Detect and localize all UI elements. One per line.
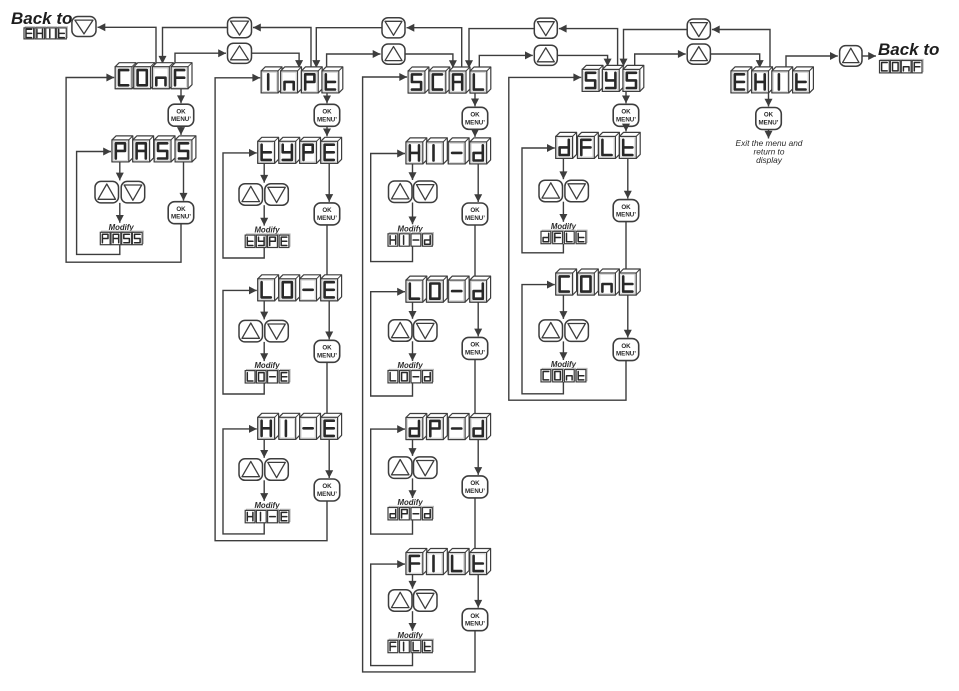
wire SYS to pair4 up-button	[635, 50, 686, 69]
wire loop modify tYPE back	[223, 149, 264, 258]
button OK/MENU SCAL-2	[462, 203, 488, 225]
svg-text:Modify: Modify	[254, 226, 280, 235]
button pair2 down	[382, 18, 405, 38]
wire tYPE to up/down pair	[260, 163, 268, 182]
svg-text:MENU’: MENU’	[317, 352, 337, 359]
small display modify FILt	[388, 639, 434, 653]
wire loop modify FILt back	[371, 560, 413, 666]
svg-text:OK: OK	[764, 112, 774, 119]
button COnt pair down	[565, 320, 589, 342]
button OK/MENU InPt-4	[314, 479, 340, 501]
svg-text:Back to: Back to	[11, 9, 72, 28]
svg-text:OK: OK	[470, 112, 480, 119]
wire LO-d to up/down pair	[409, 302, 417, 319]
wire pair3 down-button to SCAL	[465, 29, 534, 68]
svg-text:OK: OK	[322, 345, 332, 352]
svg-text:Modify: Modify	[398, 224, 424, 233]
small display EHIt (top left)	[24, 27, 68, 39]
wire pair1 up-button to InPt	[252, 53, 304, 68]
small display modify HI-E	[245, 509, 290, 523]
wire FILt to OK5	[474, 575, 482, 608]
wire COnF to pair1 up-button	[175, 49, 226, 66]
wire InPt to pair2 up-button	[327, 50, 381, 71]
svg-text:MENU’: MENU’	[465, 349, 485, 356]
wire SYS to OK1	[622, 91, 630, 103]
button OK/MENU SCAL-4	[462, 476, 488, 498]
wire loop modify dFLt back	[522, 144, 563, 253]
display SYS	[582, 65, 644, 91]
svg-text:MENU’: MENU’	[317, 215, 337, 222]
svg-text:OK: OK	[322, 109, 332, 116]
button FILt pair down	[414, 590, 438, 612]
button back down-button	[72, 17, 96, 37]
wire SCAL to OK1	[471, 93, 479, 106]
wire LO-d to OK3	[474, 302, 482, 336]
button PASS pair up	[95, 181, 119, 203]
wire OK1 to PASS	[177, 126, 185, 135]
button pair3 down	[534, 18, 557, 38]
button exit up-button	[840, 46, 862, 67]
svg-text:Modify: Modify	[398, 631, 424, 640]
button pair3 up	[534, 45, 557, 65]
button LO-E pair up	[239, 320, 263, 342]
wire HI-E to OK4	[325, 439, 333, 478]
wire CONF to back down-button	[98, 23, 157, 66]
display LO-d	[406, 276, 491, 302]
wire EXIT to pair4 down-button	[712, 26, 770, 71]
wire OK2 to LO-E	[326, 225, 328, 275]
display PASS	[112, 136, 196, 162]
button tYPE pair up	[239, 184, 263, 206]
display HI-E	[258, 413, 342, 439]
wire pair1 down-button to COnF	[159, 28, 228, 64]
svg-text:MENU’: MENU’	[616, 351, 636, 358]
wire up/down pair to Modify HI-d	[409, 203, 417, 225]
wire OK3 to dP-d	[474, 359, 476, 413]
display HI-d	[406, 138, 491, 164]
wire COnF to OK1	[177, 89, 185, 104]
display InPt	[261, 67, 343, 93]
wire InPt to OK1	[323, 93, 331, 103]
button pair4 up	[687, 44, 710, 64]
button OK/MENU COnF-2	[168, 202, 194, 224]
display EHIt	[731, 67, 813, 93]
wire COnt to up/down pair	[559, 295, 567, 319]
small display modify dP-d	[388, 506, 434, 520]
display LO-E	[258, 275, 342, 301]
display SCAL	[408, 67, 491, 93]
svg-text:OK: OK	[470, 207, 480, 214]
button OK/MENU InPt-2	[314, 203, 340, 225]
svg-text:MENU’: MENU’	[465, 119, 485, 126]
button OK/MENU SCAL-5	[462, 609, 488, 631]
wire pair4 down-button to SYS	[620, 30, 688, 67]
button HI-E pair up	[239, 459, 263, 481]
wire loop modify dP-d back	[371, 425, 413, 534]
wire OK2 to LO-d	[474, 225, 476, 276]
button OK/MENU COnF-1	[168, 104, 194, 126]
button OK/MENU SCAL-3	[462, 337, 488, 359]
button PASS pair down	[121, 181, 145, 203]
svg-text:MENU’: MENU’	[465, 215, 485, 222]
wire OK EXIT to caption	[765, 130, 773, 139]
button LO-d pair down	[414, 320, 438, 342]
button HI-E pair down	[265, 459, 289, 481]
wire EXIT to OK	[765, 93, 773, 107]
button LO-E pair down	[265, 320, 289, 342]
small display modify PASS	[100, 231, 143, 245]
wire loop InPt back	[215, 74, 327, 541]
display COnF	[115, 63, 192, 89]
button pair1 down	[228, 18, 252, 38]
wire exit up-button to Back to CONF	[862, 52, 876, 60]
wire loop modify PASS back	[77, 148, 120, 255]
svg-text:Modify: Modify	[254, 361, 280, 370]
wire up/down pair to Modify dFLt	[559, 202, 567, 222]
wire up/down pair to Modify tYPE	[260, 205, 268, 225]
button OK/MENU SYS-2	[613, 200, 639, 222]
svg-text:OK: OK	[176, 108, 186, 115]
svg-text:OK: OK	[176, 206, 186, 213]
button HI-d pair down	[414, 181, 438, 203]
wire dP-d to up/down pair	[409, 440, 417, 456]
wire up/down pair to Modify LO-d	[409, 341, 417, 361]
wire OK1 to tYPE	[323, 126, 331, 136]
button OK/MENU SYS-1	[613, 104, 639, 126]
wire SCAL to pair3 up-button	[479, 51, 533, 71]
button HI-d pair up	[389, 181, 413, 203]
svg-text:MENU’: MENU’	[317, 491, 337, 498]
wire PASS to OK2	[180, 162, 188, 201]
svg-text:Modify: Modify	[109, 223, 135, 232]
wire COnt to OK3	[624, 295, 632, 338]
svg-text:MENU’: MENU’	[465, 621, 485, 628]
button pair2 up	[382, 44, 405, 64]
svg-text:Modify: Modify	[551, 222, 577, 231]
wire up/down pair to Modify COnt	[559, 341, 567, 360]
button dFLt pair up	[539, 180, 563, 202]
svg-text:OK: OK	[322, 483, 332, 490]
button pair1 up	[228, 43, 252, 63]
wire LO-E to OK3	[325, 301, 333, 340]
button FILt pair up	[389, 590, 413, 612]
svg-text:MENU’: MENU’	[759, 120, 779, 127]
wire loop SCAL back	[363, 73, 475, 672]
svg-text:MENU’: MENU’	[616, 116, 636, 123]
small display modify HI-d	[388, 233, 434, 247]
svg-text:MENU’: MENU’	[465, 488, 485, 495]
button dFLt pair down	[565, 180, 589, 202]
button dP-d pair up	[389, 457, 413, 479]
display dFLt	[556, 132, 640, 158]
wire loop modify LO-d back	[371, 288, 413, 396]
small display modify COnt	[541, 368, 587, 382]
wire up/down pair to Modify dP-d	[409, 478, 417, 498]
svg-text:Modify: Modify	[398, 498, 424, 507]
button tYPE pair down	[265, 184, 289, 206]
svg-text:OK: OK	[470, 613, 480, 620]
wire pair2 up-button to SCAL	[405, 54, 457, 68]
button COnt pair up	[539, 320, 563, 342]
wire loop SYS back	[509, 73, 626, 400]
svg-text:Back to: Back to	[878, 40, 939, 59]
wire EXIT to exit up-button	[786, 52, 838, 71]
wire OK1 to HI-d	[471, 129, 479, 137]
svg-text:MENU’: MENU’	[171, 214, 191, 221]
wire OK3 to HI-E	[326, 362, 328, 413]
button pair4 down	[687, 19, 710, 39]
wire HI-d to up/down pair	[409, 164, 417, 180]
wire dFLt to OK2	[624, 158, 632, 198]
wire HI-d to OK2	[474, 164, 482, 202]
wire loop modify HI-E back	[223, 425, 264, 534]
display tYPE	[258, 137, 342, 163]
svg-text:OK: OK	[621, 109, 631, 116]
wire pair2 down-button to InPt	[312, 28, 382, 68]
wire SYS to pair3 down-button	[559, 25, 618, 70]
wire loop modify HI-d back	[371, 150, 413, 262]
wire pair3 up-button to SYS	[557, 55, 611, 66]
button OK/MENU EXIT	[756, 108, 782, 130]
small display modify dFLt	[541, 230, 587, 244]
svg-text:MENU’: MENU’	[317, 116, 337, 123]
wire up/down pair to Modify HI-E	[260, 480, 268, 501]
display dP-d	[406, 414, 491, 440]
button OK/MENU SYS-3	[613, 339, 639, 361]
small display COnF (top right)	[880, 59, 924, 73]
wire pair4 up-button to EXIT	[710, 54, 763, 68]
wire HI-E to up/down pair	[260, 439, 268, 458]
wire tYPE to OK2	[325, 163, 333, 202]
svg-text:OK: OK	[470, 342, 480, 349]
wire dFLt to up/down pair	[559, 158, 567, 179]
button dP-d pair down	[414, 457, 438, 479]
button OK/MENU InPt-1	[314, 104, 340, 126]
svg-text:OK: OK	[322, 207, 332, 214]
small display modify LO-E	[245, 369, 290, 383]
wire up/down pair to Modify PASS	[116, 203, 124, 223]
button OK/MENU InPt-3	[314, 340, 340, 362]
wire FILt to up/down pair	[409, 575, 417, 589]
wire loop modify LO-E back	[223, 286, 264, 394]
wire InPt to pair1 down-button	[253, 24, 311, 71]
wire SCAL to pair2 down-button	[407, 24, 462, 71]
wire loop COnF back	[66, 74, 181, 263]
wire loop modify COnt back	[522, 281, 563, 394]
wire dP-d to OK4	[474, 440, 482, 475]
wire up/down pair to Modify LO-E	[260, 342, 268, 361]
button OK/MENU SCAL-1	[462, 107, 488, 129]
wire OK2 to COnt	[625, 222, 627, 269]
display FILt	[406, 549, 491, 575]
svg-text:OK: OK	[621, 343, 631, 350]
button LO-d pair up	[389, 320, 413, 342]
wire PASS to up/down pair	[116, 162, 124, 181]
small display modify LO-d	[388, 369, 434, 383]
wire LO-E to up/down pair	[260, 301, 268, 320]
svg-text:Modify: Modify	[551, 360, 577, 369]
svg-text:MENU’: MENU’	[616, 212, 636, 219]
svg-text:OK: OK	[470, 480, 480, 487]
display COnt	[556, 269, 640, 295]
svg-text:MENU’: MENU’	[171, 116, 191, 123]
wire OK4 to FILt	[474, 498, 476, 549]
wire OK1 to dFLt	[622, 124, 630, 132]
svg-text:OK: OK	[621, 204, 631, 211]
wire up/down pair to Modify FILt	[409, 611, 417, 631]
small display modify tYPE	[245, 234, 290, 248]
svg-text:Modify: Modify	[254, 501, 280, 510]
svg-text:display: display	[756, 155, 783, 165]
svg-text:Modify: Modify	[398, 361, 424, 370]
